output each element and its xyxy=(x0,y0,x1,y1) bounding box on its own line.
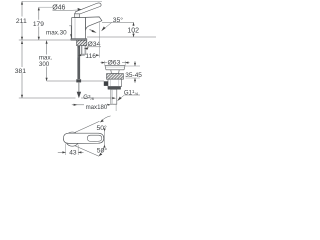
deck line left xyxy=(19,39,71,41)
dimension 35-45 xyxy=(125,65,140,67)
svg-text:Ø34: Ø34 xyxy=(88,41,101,48)
dimension 116 xyxy=(77,48,79,58)
hose tail line xyxy=(78,83,80,93)
dimension 102 xyxy=(133,22,135,26)
lever capsule top view xyxy=(63,133,103,143)
svg-text:102: 102 xyxy=(127,27,139,34)
svg-text:43: 43 xyxy=(69,150,77,157)
axis extension tick at capsule tip xyxy=(103,131,105,145)
svg-text:116: 116 xyxy=(85,53,96,60)
dimension 381 line xyxy=(21,41,23,67)
dimension 179 line xyxy=(38,7,40,20)
svg-text:max180: max180 xyxy=(86,104,108,111)
threaded shank xyxy=(81,46,86,55)
faucet base plate xyxy=(71,39,87,41)
extension line 179 datum xyxy=(39,6,52,8)
svg-text:50°: 50° xyxy=(97,147,108,155)
swivel ray lower xyxy=(70,144,99,157)
lever inner detail xyxy=(87,135,102,141)
drain flange hatched xyxy=(107,74,124,80)
extension line top of lever (211 datum) xyxy=(22,0,102,2)
svg-text:300: 300 xyxy=(39,61,50,68)
dimension max30 line xyxy=(70,26,72,40)
svg-text:381: 381 xyxy=(15,68,27,75)
dimension max180 xyxy=(72,104,84,106)
base circle xyxy=(65,132,79,146)
hose end arrow G3/8 xyxy=(77,92,81,98)
deck line right xyxy=(87,36,156,38)
svg-text:35-45: 35-45 xyxy=(125,72,142,79)
drain tailpipe xyxy=(108,87,121,90)
mounting nut hatched xyxy=(77,40,87,45)
svg-text:G3/8: G3/8 xyxy=(83,94,94,101)
swivel arc lower + arrows xyxy=(99,146,104,156)
hose junction xyxy=(76,79,81,82)
drain body xyxy=(108,79,122,86)
swivel arc upper + arrows xyxy=(101,116,111,122)
dimension max300 line xyxy=(46,41,48,55)
hose bundle xyxy=(77,46,80,79)
swivel ray upper xyxy=(70,121,99,134)
svg-text:211: 211 xyxy=(16,18,27,25)
faucet lever side view xyxy=(75,3,101,14)
svg-text:179: 179 xyxy=(33,21,44,28)
lever neck xyxy=(74,14,80,18)
bottom reference line xyxy=(19,97,76,99)
faucet spout xyxy=(86,17,102,30)
dimension 43 xyxy=(65,144,67,156)
drain plug xyxy=(105,66,125,70)
top view faucet xyxy=(63,121,103,156)
svg-text:50°: 50° xyxy=(97,124,108,132)
dimension 211 line xyxy=(21,1,23,16)
horizontal line to drain (max300 datum) xyxy=(47,80,104,82)
drain side knob xyxy=(104,81,108,86)
faucet body xyxy=(72,18,86,39)
svg-text:max.30: max.30 xyxy=(46,29,67,36)
water flow arrow at spout xyxy=(92,30,97,33)
